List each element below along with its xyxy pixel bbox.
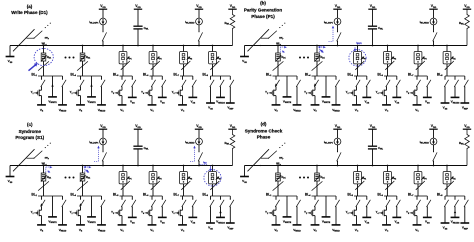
ground V_C — [148, 225, 157, 233]
svg-text:Parity Generation: Parity Generation — [244, 8, 282, 13]
svg-text:Phase: Phase — [257, 134, 271, 139]
switch on bit line BL7 — [181, 61, 190, 70]
wire BL5 from word line — [357, 165, 359, 196]
resistor R_WL — [225, 129, 235, 165]
transistor Y5 select — [172, 76, 186, 105]
transistor Y5 select — [406, 196, 420, 225]
power V_DD for C_WL — [134, 124, 142, 129]
resistor R_P1 parity cell — [354, 52, 367, 64]
switch V_REF branch — [230, 76, 234, 103]
node WL1 — [276, 162, 281, 167]
switch under current source 1 — [337, 145, 341, 166]
wire BL5 from word line — [122, 165, 124, 196]
switch read branch — [296, 76, 300, 105]
switch V_SS branch — [132, 196, 136, 217]
wire BL7 from word line — [183, 45, 185, 76]
ground V_WRITE — [322, 97, 331, 104]
resistor R_P1 parity cell — [119, 52, 132, 64]
transistor Y4 select — [376, 196, 390, 225]
ground V_READ2 — [451, 97, 460, 104]
switch on bit line BL5 — [121, 181, 130, 190]
ground V_C — [382, 225, 391, 233]
node BL6 — [143, 73, 162, 78]
transistor Y5 select — [406, 76, 420, 105]
resistor R_D1 memory cell — [41, 173, 51, 182]
switch on bit line BL5 — [355, 181, 364, 190]
ground V_WRITE — [87, 217, 96, 224]
title (d) — [245, 121, 283, 139]
highlight ellipse around R_D1 (blue) — [34, 48, 53, 65]
transistor Y3 select — [346, 76, 360, 105]
wire write branch — [90, 76, 92, 97]
current source I_WL,D1/P1 — [89, 129, 106, 145]
switch read branch — [101, 76, 105, 105]
transistor Y3 select — [111, 76, 125, 105]
node BL4 — [305, 73, 336, 78]
wire BL7 from word line — [417, 165, 419, 196]
capacitor C_WL — [133, 129, 149, 166]
switch on bit line BL1 — [273, 61, 284, 70]
ground V_SS — [158, 97, 167, 104]
svg-text:Write Phase (D1): Write Phase (D1) — [11, 10, 48, 15]
wire BL1 from word line — [43, 165, 45, 196]
blue current arrow at I_WL write source (c) — [94, 146, 100, 162]
switch on bit line BL7 — [416, 61, 425, 70]
wire write branch — [286, 196, 288, 217]
blue I_WL label on bus (c) — [83, 166, 90, 173]
switch read branch — [62, 196, 66, 225]
power V_DD for I_WL read source — [429, 4, 437, 9]
switch V_SS branch — [396, 196, 400, 217]
switch on bit line BL1 — [273, 181, 284, 190]
ground V_SS — [362, 217, 371, 224]
node BL8 — [202, 193, 230, 198]
svg-text:(b): (b) — [260, 1, 266, 6]
ground V_SS — [206, 103, 215, 110]
resistor R_S1 syndrome cell — [443, 52, 456, 64]
ground V_S under transistor — [311, 225, 320, 233]
wire BL7 from word line — [183, 165, 185, 196]
current source I_WL,READ — [185, 9, 202, 25]
node WL1 — [276, 42, 281, 47]
wire BL6 from word line — [387, 45, 389, 76]
switch on bit line BL8 — [210, 61, 219, 70]
power V_DD for R_WL — [463, 4, 471, 9]
title (c) — [15, 122, 44, 140]
ground V_READ — [332, 225, 341, 233]
switch SW word line (ganged) — [248, 23, 286, 52]
ground V_C — [148, 105, 157, 113]
capacitor C_WL — [368, 9, 384, 46]
wire write branch — [325, 76, 327, 97]
svg-text:Syndrome: Syndrome — [19, 129, 42, 134]
blue current arrow at I_WL source (b) — [329, 26, 335, 42]
resistor R_WL — [459, 9, 469, 45]
wire BL4 from word line — [82, 45, 84, 76]
switch V_SS branch — [210, 196, 214, 223]
switch SW word line (ganged) — [248, 143, 286, 172]
resistor R_D4 memory cell — [80, 173, 90, 182]
blue I_BL1 mark (c) — [46, 166, 53, 174]
node BL5 — [113, 73, 132, 78]
current source I_WL,D1/P1 — [324, 129, 341, 145]
switch on bit line BL4 — [312, 61, 323, 70]
blue pointer arrow to R_D1 — [29, 63, 38, 71]
switch on bit line BL6 — [385, 181, 394, 190]
transistor Y4 select — [141, 76, 155, 105]
node BL8 — [437, 193, 465, 198]
resistor R_D4 memory cell — [80, 53, 90, 62]
power V_DD for I_WL write source — [333, 4, 341, 9]
switch SW word line (ganged) — [13, 143, 51, 172]
wire write branch — [52, 196, 54, 217]
switch on bit line BL6 — [151, 181, 160, 190]
wire BL1 from word line — [277, 45, 279, 76]
current source I_WL,READ — [420, 9, 437, 25]
switch V_SS branch — [444, 196, 448, 223]
switch on bit line BL8 — [445, 181, 454, 190]
wire BL8 from word line — [212, 165, 214, 196]
resistor R_S1 syndrome cell — [209, 172, 222, 184]
wire word line bus — [245, 45, 468, 47]
blue I_BL1 mark (b) — [280, 46, 287, 54]
wire BL4 from word line — [82, 165, 84, 196]
switch V_REF branch — [464, 76, 468, 103]
ground V_WRITE — [283, 217, 292, 224]
power V_DD for R_WL — [228, 4, 236, 9]
ground V_SS at word line driver — [240, 166, 249, 184]
ground V_C — [382, 105, 391, 113]
transistor Y1 select — [31, 196, 45, 225]
wire BL6 from word line — [387, 165, 389, 196]
switch V_SS branch — [162, 76, 166, 97]
power V_DD for R_WL — [228, 124, 236, 129]
ground V_C — [352, 225, 361, 233]
switch SW word line (ganged) — [13, 23, 51, 52]
ground V_S under transistor — [272, 225, 281, 233]
node BL5 — [347, 193, 366, 198]
ground V_SS — [128, 97, 137, 104]
ground V_REF — [460, 223, 469, 230]
switch on bit line BL6 — [385, 61, 394, 70]
node BL5 — [113, 193, 132, 198]
ground V_SS — [392, 97, 401, 104]
svg-text:(a): (a) — [27, 4, 33, 9]
current source I_WL,D1/P1 — [324, 9, 341, 25]
ground V_REF — [226, 223, 235, 230]
wire BL7 from word line — [417, 45, 419, 76]
resistor R_D4 memory cell — [314, 173, 324, 182]
ground V_S under transistor — [311, 105, 320, 113]
node BL4 — [70, 193, 101, 198]
capacitor C_WL — [133, 9, 149, 46]
resistor R_P2 parity cell — [149, 172, 162, 184]
switch under current source 1 — [337, 25, 341, 46]
wire word line bus — [10, 165, 233, 167]
node WL1 — [42, 42, 47, 47]
wire BL8 from word line — [446, 45, 448, 76]
transistor Y1 select — [31, 76, 45, 105]
ground V_SS — [423, 217, 432, 224]
transistor Y2 select — [304, 196, 318, 225]
resistor R_S1 syndrome cell — [209, 52, 222, 64]
node BL5 — [347, 73, 366, 78]
switch under current source 1 — [102, 25, 106, 46]
wire BL8 from word line — [446, 165, 448, 196]
resistor R_P1 parity cell — [119, 172, 132, 184]
wire BL6 from word line — [152, 45, 154, 76]
wire BL8 from word line — [212, 45, 214, 76]
wire BL6 from word line — [152, 165, 154, 196]
node BL8 — [202, 73, 230, 78]
transistor Y1 select — [265, 196, 279, 225]
power V_DD for I_WL read source — [429, 124, 437, 129]
switch read branch — [335, 196, 339, 225]
blue current arrow at I_WL read source (c) — [190, 146, 196, 162]
ground V_C — [178, 105, 187, 113]
ellipsis dots — [65, 57, 75, 59]
ground V_READ — [97, 105, 106, 113]
ground V_WRITE — [283, 97, 292, 104]
transistor Y3 select — [346, 196, 360, 225]
ground V_SS — [441, 223, 450, 230]
transistor Y2 select — [304, 76, 318, 105]
switch V_SS branch — [427, 196, 431, 217]
ground V_SS — [392, 217, 401, 224]
blue I_BL4 mark (c) — [85, 166, 92, 174]
wire write branch — [325, 196, 327, 217]
node BL7 — [408, 73, 427, 78]
ground V_C — [413, 105, 422, 113]
ground V_S under transistor — [272, 105, 281, 113]
svg-text:(c): (c) — [27, 122, 33, 127]
switch read branch — [101, 196, 105, 225]
title (a) — [11, 4, 48, 15]
switch under current source 2 — [433, 25, 437, 46]
transistor Y3 select — [111, 196, 125, 225]
blue I_BL8 arrow and ellipse around R_S1 — [200, 162, 222, 186]
switch V_REF branch — [230, 196, 234, 223]
resistor R_P3 parity cell — [180, 172, 193, 184]
switch V_SS branch — [396, 76, 400, 97]
svg-text:Program (S1): Program (S1) — [15, 135, 44, 140]
resistor R_D1 memory cell — [275, 173, 285, 182]
power V_DD for I_WL read source — [195, 4, 203, 9]
ground V_SS — [188, 217, 197, 224]
ground V_READ — [293, 225, 302, 233]
svg-text:Syndrome Check: Syndrome Check — [245, 129, 283, 134]
switch V_SS branch — [162, 196, 166, 217]
switch on bit line BL4 — [77, 61, 88, 70]
node BL7 — [408, 193, 427, 198]
wire write branch — [51, 76, 53, 97]
wire BL1 from word line — [277, 165, 279, 196]
capacitor C_WL — [368, 129, 384, 166]
node BL7 — [173, 193, 192, 198]
current source I_WL,D1/P1 — [89, 9, 106, 25]
power V_DD for C_WL — [368, 4, 376, 9]
wire write branch — [91, 196, 93, 217]
ground V_SS at word line driver — [6, 166, 15, 184]
switch V_READ2 branch — [219, 196, 224, 217]
current source I_WL,READ — [420, 129, 437, 145]
ellipsis dots — [65, 177, 75, 179]
wire word line bus — [245, 165, 468, 167]
ground V_WRITE — [87, 97, 96, 104]
node BL1 — [266, 193, 297, 198]
power V_DD for C_WL — [134, 4, 142, 9]
wire BL1 from word line — [43, 45, 45, 76]
node WL1 — [42, 162, 47, 167]
ground V_REF — [460, 103, 469, 110]
switch on bit line BL6 — [151, 61, 160, 70]
switch V_SS branch — [444, 76, 448, 103]
ground V_SS at word line driver — [240, 46, 249, 64]
node BL6 — [377, 193, 396, 198]
ground V_C — [352, 105, 361, 113]
blue I_WL label on bus (b) — [318, 46, 325, 53]
ground V_READ2 — [216, 217, 225, 224]
switch V_READ2 branch — [220, 76, 224, 97]
ground V_READ2 — [451, 217, 460, 224]
ground V_S under transistor — [37, 105, 46, 113]
ground V_READ — [97, 225, 106, 233]
switch on bit line BL7 — [181, 181, 190, 190]
ground V_SS — [188, 97, 197, 104]
title (b) — [244, 1, 282, 19]
switch on bit line BL5 — [121, 61, 130, 70]
blue I_BL4 mark (b) — [319, 46, 326, 54]
power V_DD for I_WL write source — [99, 4, 107, 9]
transistor Y1 select — [265, 76, 279, 105]
ground V_READ — [332, 105, 341, 113]
switch on bit line BL4 — [312, 181, 323, 190]
switch on bit line BL5 — [355, 61, 364, 70]
resistor R_WL — [459, 129, 469, 165]
switch read branch — [62, 76, 66, 105]
transistor Y2 select — [70, 76, 84, 105]
wire word line bus — [10, 45, 233, 47]
resistor R_P2 parity cell — [384, 52, 397, 64]
ground V_SS at word line driver — [6, 46, 15, 64]
switch read branch — [296, 196, 300, 225]
switch V_SS branch — [192, 196, 196, 217]
svg-text:Phase (P1): Phase (P1) — [251, 14, 275, 19]
switch on bit line BL8 — [445, 61, 454, 70]
ground V_WRITE — [322, 217, 331, 224]
resistor R_D4 memory cell — [314, 53, 324, 62]
ground V_SS — [441, 103, 450, 110]
switch under current source 1 — [102, 145, 106, 166]
switch on bit line BL8 — [210, 181, 219, 190]
wire write branch — [286, 76, 288, 97]
switch V_READ2 branch — [454, 76, 458, 97]
resistor R_P1 parity cell — [354, 172, 367, 184]
switch V_SS branch — [210, 76, 214, 103]
switch under current source 2 — [198, 145, 202, 166]
ground V_READ2 — [216, 97, 225, 104]
node BL1 — [31, 73, 62, 78]
switch V_REF branch — [464, 196, 468, 223]
switch V_SS branch — [366, 76, 370, 97]
transistor Y2 select — [70, 196, 84, 225]
switch V_READ2 branch — [454, 196, 459, 217]
wire BL5 from word line — [357, 45, 359, 76]
ground V_READ — [293, 105, 302, 113]
ground V_WRITE — [48, 97, 57, 104]
ground V_C — [413, 225, 422, 233]
node BL4 — [70, 73, 101, 78]
resistor R_P2 parity cell — [384, 172, 397, 184]
node BL1 — [31, 193, 62, 198]
resistor R_D1 memory cell — [41, 53, 51, 62]
resistor R_P3 parity cell — [414, 172, 427, 184]
wire BL5 from word line — [122, 45, 124, 76]
ground V_S under transistor — [76, 225, 85, 233]
node BL1 — [266, 73, 297, 78]
switch V_SS branch — [192, 76, 196, 97]
transistor Y4 select — [141, 196, 155, 225]
ground V_C — [118, 105, 127, 113]
switch read branch — [335, 76, 339, 105]
node BL6 — [143, 193, 162, 198]
current source I_WL,READ — [185, 129, 202, 145]
svg-text:(d): (d) — [261, 121, 267, 126]
power V_DD for I_WL write source — [99, 124, 107, 129]
transistor Y4 select — [376, 76, 390, 105]
node BL6 — [377, 73, 396, 78]
ellipsis dots — [299, 177, 309, 179]
transistor Y5 select — [172, 196, 186, 225]
power V_DD for I_WL read source — [195, 124, 203, 129]
ground V_REF — [226, 103, 235, 110]
switch under current source 2 — [198, 25, 202, 46]
switch V_SS branch — [132, 76, 136, 97]
ground V_C — [178, 225, 187, 233]
ground V_SS — [158, 217, 167, 224]
resistor R_P3 parity cell — [180, 52, 193, 64]
ground V_WRITE — [48, 217, 57, 224]
node BL7 — [173, 73, 192, 78]
switch V_SS branch — [427, 76, 431, 97]
ground V_SS — [423, 97, 432, 104]
switch on bit line BL7 — [416, 181, 425, 190]
wire BL4 from word line — [316, 165, 318, 196]
blue I_BL5 arrow and ellipse around R_P1 — [349, 42, 366, 66]
switch on bit line BL4 — [77, 181, 88, 190]
ground V_READ — [58, 225, 67, 233]
power V_DD for C_WL — [368, 124, 376, 129]
switch V_SS branch — [366, 196, 370, 217]
ground V_C — [118, 225, 127, 233]
switch on bit line BL1 — [38, 61, 49, 70]
ground V_S under transistor — [76, 105, 85, 113]
ellipsis dots — [299, 57, 309, 59]
switch on bit line BL1 — [38, 181, 49, 190]
power V_DD for I_WL write source — [333, 124, 341, 129]
resistor R_WL — [225, 9, 235, 45]
node BL4 — [305, 193, 336, 198]
node BL8 — [437, 73, 465, 78]
switch under current source 2 — [433, 145, 437, 166]
resistor R_P2 parity cell — [149, 52, 162, 64]
ground V_SS — [206, 223, 215, 230]
resistor R_D1 memory cell — [275, 53, 285, 62]
wire BL4 from word line — [316, 45, 318, 76]
power V_DD for R_WL — [463, 124, 471, 129]
resistor R_P3 parity cell — [414, 52, 427, 64]
ground V_SS — [128, 217, 137, 224]
